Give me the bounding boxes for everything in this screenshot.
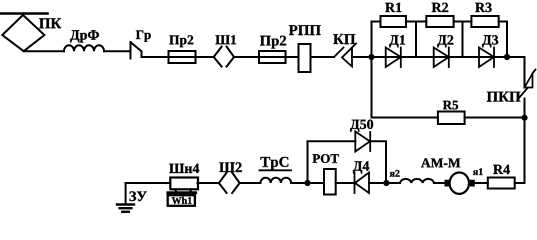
node E junction dot bbox=[304, 180, 310, 186]
relay ROT bbox=[324, 169, 336, 195]
label Sh1 bbox=[215, 35, 236, 44]
wire D4 to node D bbox=[369, 182, 386, 184]
label Gr bbox=[136, 31, 151, 42]
label TrS bbox=[261, 157, 289, 170]
resistor R4 bbox=[488, 178, 515, 189]
label ya2 bbox=[390, 170, 400, 177]
wire R4 to motor bbox=[475, 182, 488, 184]
label KP bbox=[333, 34, 355, 44]
wire RPP to KP bbox=[311, 56, 335, 58]
connector Sh1 bbox=[214, 47, 222, 67]
diode row wire bbox=[372, 56, 525, 58]
wire ROT to D4 bbox=[336, 182, 355, 184]
wire ground to shunt bbox=[126, 182, 171, 184]
switch PKP bbox=[525, 74, 533, 88]
label Pr2 second bbox=[260, 36, 286, 49]
inductor DrF bbox=[64, 45, 104, 51]
label ROT bbox=[313, 154, 339, 163]
label DrF bbox=[70, 30, 99, 42]
label ya1 bbox=[473, 168, 483, 175]
motor AM-M armature bbox=[470, 180, 475, 187]
resistor R5 bbox=[438, 112, 465, 125]
resistor R3 bbox=[471, 16, 498, 27]
wire KP to node A bbox=[352, 56, 372, 58]
node C junction dot bbox=[521, 115, 527, 121]
resistor R2 bbox=[426, 16, 453, 27]
node D junction dot bbox=[383, 180, 389, 186]
label D4 bbox=[353, 161, 369, 173]
wire pantograph to DrF bbox=[24, 50, 64, 52]
contactor KP bbox=[334, 48, 344, 58]
wire Pr2 to RPP bbox=[286, 56, 299, 58]
field winding AM-M coil bbox=[400, 179, 434, 183]
riser node A down to R5 row bbox=[372, 57, 438, 118]
wire R1 to R2 bbox=[406, 21, 426, 23]
riser between R2 and R3 bbox=[462, 22, 464, 58]
wire Gr to Pr2 bbox=[142, 56, 169, 58]
meter posts bbox=[175, 189, 177, 191]
fuse Pr2 (second) bbox=[259, 56, 286, 58]
label AM-M bbox=[421, 158, 460, 167]
label R3 bbox=[475, 3, 491, 12]
wire node D to coil bbox=[386, 182, 400, 184]
meter connection bar bbox=[166, 191, 197, 194]
wire bottom right corner to R4 bbox=[515, 182, 525, 184]
diode D50 bbox=[355, 132, 370, 152]
inductor TrS bbox=[261, 178, 292, 183]
label R5 bbox=[443, 101, 458, 110]
label D1 bbox=[389, 35, 405, 47]
shunt Shn4 bbox=[170, 178, 198, 190]
diode D2 bbox=[434, 48, 449, 68]
resistor R1 bbox=[381, 16, 407, 27]
label R1 bbox=[385, 3, 401, 12]
riser node E to D50 branch bbox=[308, 141, 356, 183]
wire Sh1 to Pr2 second bbox=[234, 56, 259, 58]
label D3 bbox=[482, 35, 498, 47]
label D2 bbox=[437, 35, 453, 47]
node B junction dot bbox=[504, 54, 510, 60]
wire R2 to R3 bbox=[454, 21, 472, 23]
label PKP bbox=[487, 92, 521, 102]
label D50 bbox=[350, 120, 373, 132]
ground ZU bbox=[125, 183, 127, 205]
label Sh2 bbox=[219, 162, 241, 172]
switch Gr bbox=[130, 42, 132, 59]
label RPP bbox=[289, 25, 321, 35]
contact wire bbox=[0, 12, 48, 15]
wire node E to ROT bbox=[308, 182, 325, 184]
wire DrF to Gr bbox=[104, 50, 131, 52]
wire motor to field coil bbox=[434, 182, 445, 184]
label Pr2 first bbox=[169, 35, 193, 47]
wire R3 to right corner bbox=[499, 22, 507, 58]
fuse Pr2 (first) bbox=[169, 56, 196, 58]
diode D3 bbox=[479, 48, 494, 68]
label R4 bbox=[493, 165, 510, 174]
meter Wh1 bbox=[168, 195, 195, 206]
connector Sh2 bbox=[219, 173, 227, 193]
label PK bbox=[39, 18, 61, 28]
diode D4 bbox=[355, 173, 369, 194]
riser between R1 and R2 bbox=[415, 22, 417, 58]
diode D1 bbox=[386, 48, 401, 68]
label ZU bbox=[130, 191, 147, 201]
wire PKP down to node C bbox=[524, 99, 526, 184]
riser node A to R row bbox=[372, 22, 381, 58]
wire D50 down to node D bbox=[370, 141, 386, 183]
wire to PKP corner bbox=[524, 57, 526, 88]
wire TrS to node E bbox=[291, 182, 308, 184]
pantograph PK bbox=[2, 15, 44, 51]
relay RPP bbox=[299, 44, 311, 72]
wire Sh2 to TrS bbox=[240, 182, 261, 184]
label R2 bbox=[432, 3, 448, 12]
label Shn4 bbox=[169, 164, 199, 173]
node A junction dot bbox=[368, 54, 374, 60]
wire shunt to Sh2 bbox=[198, 182, 219, 184]
wire R5 to node C bbox=[465, 117, 525, 119]
wire Pr2 to Sh1 bbox=[196, 56, 214, 58]
